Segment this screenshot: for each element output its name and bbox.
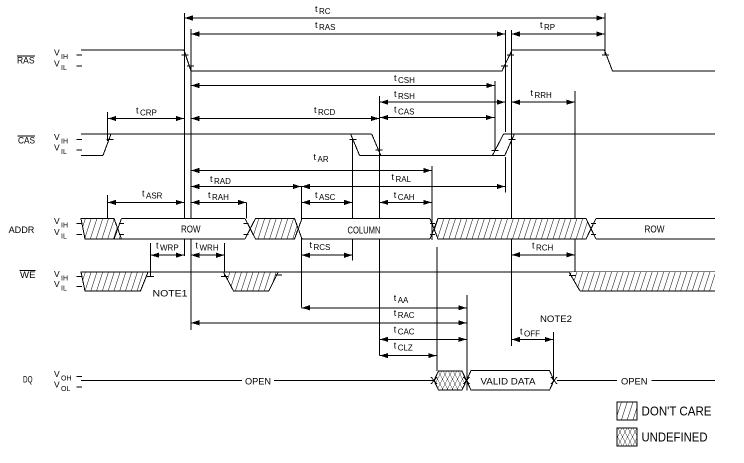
timing arrow tRAL with label: [301, 172, 505, 189]
signal label WE (active low): [20, 270, 36, 280]
svg-text:RAD: RAD: [214, 177, 231, 186]
svg-text:IH: IH: [61, 54, 68, 61]
svg-text:CRP: CRP: [140, 109, 157, 118]
svg-text:V: V: [54, 48, 60, 58]
vertical reference line at CAS precharge rise (x=107): [107, 112, 109, 219]
signal label DQ: [23, 374, 33, 384]
svg-text:IH: IH: [61, 276, 68, 283]
svg-text:OPEN: OPEN: [245, 377, 271, 388]
timing arrow tRP with label: [511, 20, 605, 37]
svg-text:IL: IL: [61, 65, 67, 72]
svg-text:ROW: ROW: [645, 225, 665, 236]
signal label RAS (active low): [17, 56, 35, 66]
svg-text:IH: IH: [61, 222, 68, 229]
legend UNDEFINED swatch and label: [617, 428, 708, 446]
svg-text:OFF: OFF: [524, 330, 540, 339]
vertical reference tick tWRH right end (x=225): [224, 243, 226, 277]
svg-text:AA: AA: [398, 296, 409, 305]
svg-text:RAL: RAL: [396, 175, 412, 184]
svg-text:WRP: WRP: [160, 244, 179, 253]
svg-text:RAS: RAS: [319, 23, 335, 32]
timing arrow tOFF with label: [511, 327, 553, 343]
svg-text:VALID DATA: VALID DATA: [481, 377, 537, 388]
svg-text:RAH: RAH: [212, 193, 229, 202]
level labels VOH VOL for DQ: [54, 369, 82, 393]
svg-text:OL: OL: [61, 386, 70, 393]
svg-text:IL: IL: [61, 286, 67, 293]
timing arrow tCLZ with label: [380, 341, 437, 359]
timing arrow tCRP with label: [108, 106, 185, 122]
svg-text:V: V: [54, 59, 60, 69]
svg-text:DON'T CARE: DON'T CARE: [642, 404, 712, 418]
timing arrow tRRH with label: [511, 88, 575, 105]
timing arrow tWRH with label: [191, 241, 225, 258]
svg-text:IL: IL: [61, 233, 67, 240]
timing arrow tRAS with label: [191, 20, 506, 37]
svg-text:CLZ: CLZ: [398, 344, 413, 353]
svg-text:V: V: [54, 143, 60, 153]
vertical reference line CAS latest fall (x=380): [379, 96, 381, 356]
svg-text:OPEN: OPEN: [621, 377, 648, 388]
svg-text:CAC: CAC: [398, 328, 415, 337]
svg-text:RAS: RAS: [17, 56, 35, 66]
level labels VIH VIL for CAS: [54, 132, 82, 156]
vertical reference tick tOFF right end (x=553): [553, 332, 555, 381]
timing arrow tCSH with label: [191, 73, 495, 88]
svg-text:IH: IH: [61, 139, 68, 146]
svg-text:AR: AR: [318, 155, 329, 164]
timing arrow tRAD with label: [191, 174, 301, 189]
ADDR bus cell COLUMN: [302, 219, 430, 240]
annotation NOTE1: [153, 289, 188, 300]
svg-text:RAC: RAC: [398, 311, 415, 320]
vertical reference line CAS earliest fall (x=353): [352, 140, 354, 261]
svg-text:RCS: RCS: [314, 243, 331, 252]
svg-text:V: V: [54, 216, 60, 226]
svg-text:V: V: [54, 269, 60, 279]
svg-text:WE: WE: [20, 270, 36, 280]
vertical reference line RAS second fall (x=605): [604, 13, 606, 56]
svg-text:RC: RC: [319, 7, 331, 16]
level labels VIH VIL for RAS: [54, 48, 82, 73]
vertical reference line at RAS first fall VIL (x=191): [190, 29, 192, 330]
svg-text:V: V: [54, 132, 60, 142]
vertical reference line RAS rise VIL (x=505): [504, 30, 506, 192]
signal label CAS (active low): [18, 135, 36, 145]
vertical reference line column address valid (x=301): [300, 187, 302, 308]
waveform WE with dont-care hatch regions: [81, 272, 715, 291]
svg-text:RSH: RSH: [398, 92, 415, 101]
waveform RAS with VIH/VIL crossing ticks: [81, 50, 715, 71]
signal label ADDR: [9, 225, 35, 235]
svg-text:ASC: ASC: [319, 193, 336, 202]
vertical reference line CAS earliest rise (x=495): [494, 81, 496, 151]
svg-text:RP: RP: [544, 23, 555, 32]
svg-text:UNDEFINED: UNDEFINED: [642, 430, 708, 444]
DQ bus cell VALID DATA: [467, 371, 558, 391]
timing arrow tRAH with label: [191, 190, 247, 205]
svg-text:V: V: [54, 379, 60, 389]
svg-text:CAS: CAS: [398, 108, 414, 117]
annotation NOTE2: [540, 314, 572, 325]
vertical reference line column address end (x=432): [431, 166, 433, 240]
svg-text:OH: OH: [61, 376, 72, 383]
svg-text:CSH: CSH: [398, 76, 415, 85]
timing arrow tCAS with label: [380, 105, 495, 121]
timing arrow tRSH with label: [380, 89, 506, 105]
svg-text:RCH: RCH: [536, 243, 554, 252]
svg-text:NOTE1: NOTE1: [153, 289, 188, 300]
svg-text:CAH: CAH: [398, 193, 415, 202]
svg-text:ASR: ASR: [146, 192, 163, 201]
legend DON'T CARE swatch and label: [617, 402, 712, 420]
timing arrow tRC with label: [184, 4, 605, 21]
ADDR dont-care hatch between ROW and COLUMN with X transitions: [243, 219, 302, 240]
vertical reference line RAS rise VIH (x=511): [510, 30, 512, 346]
timing arrow tRCD with label: [191, 105, 380, 121]
waveform CAS with edge windows and crossing ticks: [81, 134, 715, 156]
svg-text:IL: IL: [61, 149, 67, 156]
timing arrow tRCH with label: [511, 240, 575, 257]
timing arrow tRAC with label: [191, 308, 467, 325]
ADDR bus cell ROW (second): [596, 219, 715, 240]
timing arrow tWRP with label: [151, 241, 185, 258]
svg-text:V: V: [54, 369, 60, 379]
timing arrow tRCS with label: [301, 240, 352, 258]
DQ undefined cross-hatch region: [431, 371, 470, 390]
timing arrow tASR with label: [108, 189, 185, 206]
timing arrow tAA with label: [301, 293, 467, 310]
DQ open line left with OPEN label: [81, 377, 434, 388]
svg-text:NOTE2: NOTE2: [540, 314, 572, 325]
ADDR dont-care hatch between COLUMN and ROW with X transitions: [430, 219, 596, 240]
svg-text:V: V: [54, 227, 60, 237]
ADDR dont-care hatch left segment with X transition: [81, 219, 124, 240]
level labels VIH VIL for WE: [54, 269, 82, 293]
svg-text:V: V: [54, 279, 60, 289]
DQ open line right with OPEN label: [557, 377, 715, 388]
svg-text:ROW: ROW: [181, 225, 201, 236]
vertical reference line at RAS first fall VIH (x=184): [183, 13, 185, 256]
timing arrow tASC with label: [301, 190, 352, 205]
timing arrow tCAH with label: [380, 190, 432, 205]
svg-text:CAS: CAS: [18, 135, 35, 145]
vertical reference tick tRAH right end (x=246): [246, 203, 248, 219]
vertical reference line DQ drive start (x=437): [436, 247, 438, 371]
level labels VIH VIL for ADDR: [54, 216, 82, 241]
svg-text:COLUMN: COLUMN: [348, 226, 381, 237]
svg-text:RCD: RCD: [318, 108, 336, 117]
timing arrow tCAC with label: [380, 325, 467, 343]
svg-text:RRH: RRH: [535, 91, 553, 100]
timing arrow tAR with label: [191, 152, 432, 173]
ADDR bus cell ROW (first): [122, 219, 246, 240]
vertical reference tick tWRP left end (x=150): [150, 243, 152, 277]
vertical reference line WE dont-care start (x=575): [574, 91, 576, 274]
svg-text:ADDR: ADDR: [9, 225, 35, 235]
svg-text:DQ: DQ: [23, 374, 33, 384]
vertical reference line valid data start (x=467): [466, 295, 468, 391]
svg-text:WRH: WRH: [200, 244, 219, 253]
